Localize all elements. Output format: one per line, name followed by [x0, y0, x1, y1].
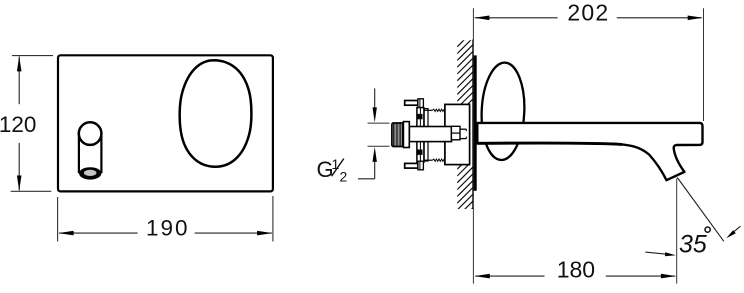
svg-text:190: 190	[146, 215, 190, 240]
svg-text:35: 35	[679, 230, 707, 258]
svg-text:202: 202	[567, 0, 609, 26]
svg-text:2: 2	[340, 169, 348, 185]
svg-text:120: 120	[0, 112, 36, 137]
svg-text:180: 180	[557, 256, 595, 282]
